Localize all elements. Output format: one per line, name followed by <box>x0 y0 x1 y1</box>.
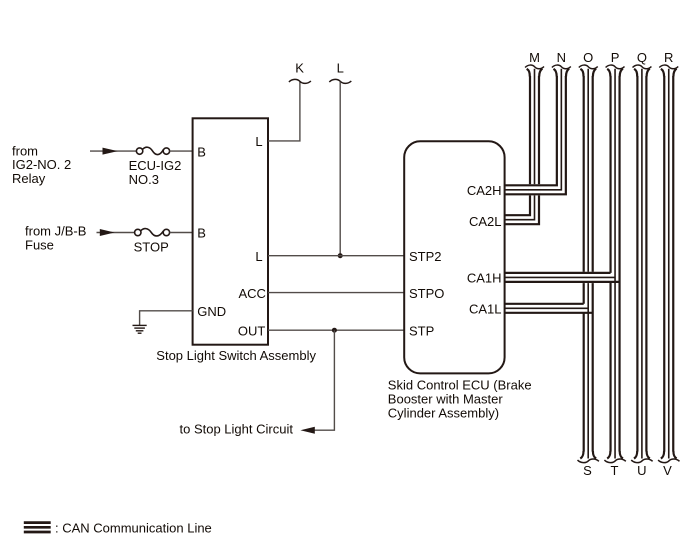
wire: L/STP2 line <box>268 255 404 257</box>
svg-text:L: L <box>255 249 262 264</box>
svg-text:to Stop Light Circuit: to Stop Light Circuit <box>180 422 294 437</box>
svg-text:V: V <box>663 463 672 478</box>
arrow: to stop light circuit <box>300 427 314 434</box>
wire: CAN CA2H to N (triple) <box>504 69 566 195</box>
wire: CAN column Q-U (triple) <box>637 69 646 459</box>
svg-text:B: B <box>197 226 206 241</box>
svg-text:Skid Control ECU (Brake: Skid Control ECU (Brake <box>388 377 532 392</box>
svg-text:GND: GND <box>197 304 226 319</box>
wire: ACC/STPO line <box>268 292 404 294</box>
wire: CAN column R-V (triple) <box>664 69 673 459</box>
connector M symbol <box>525 65 544 69</box>
fuse ECU-IG2 NO.3 <box>136 147 192 154</box>
arrow: B2 feed direction <box>100 229 115 236</box>
svg-text:STOP: STOP <box>134 239 169 254</box>
junction: CA2H crosses M column <box>529 184 541 195</box>
svg-text:Cylinder Assembly): Cylinder Assembly) <box>388 405 499 420</box>
connector S symbol <box>578 459 599 463</box>
wire: CAN CA1H to P (triple T-junction) <box>504 273 620 282</box>
junction: CA1H crosses O column <box>582 272 594 283</box>
svg-text:CA2L: CA2L <box>469 214 502 229</box>
svg-text:L: L <box>337 61 344 76</box>
connector L symbol <box>329 79 351 83</box>
svg-text:CA2H: CA2H <box>467 183 502 198</box>
svg-text:ECU-IG2: ECU-IG2 <box>129 158 182 173</box>
svg-text:ACC: ACC <box>239 286 266 301</box>
svg-text:CA1H: CA1H <box>467 271 502 286</box>
svg-text:IG2-NO. 2: IG2-NO. 2 <box>12 157 71 172</box>
wire: CAN CA2L to M (triple) <box>504 69 539 224</box>
wire: connector L down to STP2 line <box>339 82 341 256</box>
svg-text:STPO: STPO <box>409 286 444 301</box>
svg-text:STP2: STP2 <box>409 249 442 264</box>
svg-text:T: T <box>611 463 619 478</box>
connector P symbol <box>606 65 625 69</box>
svg-text:NO.3: NO.3 <box>129 172 159 187</box>
junction: OUT line to stop light circuit <box>332 328 337 333</box>
svg-text:from: from <box>12 143 38 158</box>
connector R symbol <box>659 65 678 69</box>
stop light switch assembly box <box>193 118 268 344</box>
svg-text:Fuse: Fuse <box>25 238 54 253</box>
svg-text:: CAN Communication Line: : CAN Communication Line <box>55 520 212 535</box>
fuse STOP <box>135 229 193 236</box>
connector Q symbol <box>633 65 652 69</box>
connector K symbol <box>289 79 311 83</box>
svg-text:O: O <box>583 50 593 65</box>
wire: OUT/STP line <box>268 329 404 331</box>
skid control ECU box <box>404 141 504 373</box>
wire: CAN CA1L to O (triple T-junction) <box>504 304 593 313</box>
wire: CAN column O-S (triple) <box>584 69 593 459</box>
wire: B2 feed wire <box>97 232 135 234</box>
svg-text:N: N <box>557 50 566 65</box>
svg-text:B: B <box>197 144 206 159</box>
svg-text:U: U <box>637 463 646 478</box>
svg-text:R: R <box>664 50 673 65</box>
svg-text:Booster with Master: Booster with Master <box>388 391 504 406</box>
svg-text:P: P <box>611 50 620 65</box>
arrow: B1 feed direction <box>103 148 118 155</box>
svg-text:CA1L: CA1L <box>469 302 502 317</box>
wire: CAN column P-T (triple) <box>611 69 620 459</box>
legend: CAN communication line symbol <box>24 523 51 532</box>
svg-text:S: S <box>583 463 592 478</box>
connector N symbol <box>552 65 571 69</box>
wire: down to stop light circuit <box>314 330 335 430</box>
svg-text:Stop Light Switch Assembly: Stop Light Switch Assembly <box>156 348 316 363</box>
svg-text:Q: Q <box>637 50 647 65</box>
wire: B1 feed wire <box>90 150 136 152</box>
connector V symbol <box>658 459 679 463</box>
wire: L pin to connector K <box>268 82 300 141</box>
svg-text:OUT: OUT <box>238 323 266 338</box>
ground symbol <box>133 325 147 333</box>
connector O symbol <box>579 65 598 69</box>
connector U symbol <box>631 459 652 463</box>
svg-text:M: M <box>529 50 540 65</box>
svg-text:K: K <box>295 61 304 76</box>
svg-text:L: L <box>255 134 262 149</box>
svg-text:from J/B-B: from J/B-B <box>25 224 86 239</box>
junction: L wire on STP2 line <box>338 253 343 258</box>
wire: GND pin to ground <box>140 311 193 325</box>
svg-text:STP: STP <box>409 323 434 338</box>
connector T symbol <box>604 459 625 463</box>
svg-text:Relay: Relay <box>12 171 46 186</box>
